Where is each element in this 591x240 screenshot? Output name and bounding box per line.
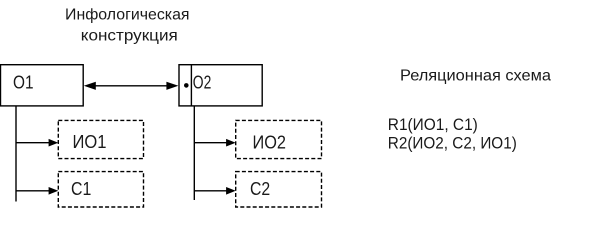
- svg-text:R2(ИО2, С2, ИО1): R2(ИО2, С2, ИО1): [388, 135, 517, 153]
- svg-text:ИО1: ИО1: [73, 132, 107, 152]
- svg-text:С1: С1: [71, 179, 91, 199]
- svg-text:конструкция: конструкция: [81, 28, 178, 45]
- svg-text:О1: О1: [13, 73, 34, 93]
- svg-text:Инфологическая: Инфологическая: [65, 7, 190, 24]
- svg-text:ИО2: ИО2: [253, 132, 287, 152]
- svg-text:R1(ИО1, С1): R1(ИО1, С1): [388, 116, 478, 134]
- svg-text:О2: О2: [193, 73, 212, 93]
- svg-text:С2: С2: [250, 179, 270, 199]
- svg-text:Реляционная схема: Реляционная схема: [400, 68, 551, 85]
